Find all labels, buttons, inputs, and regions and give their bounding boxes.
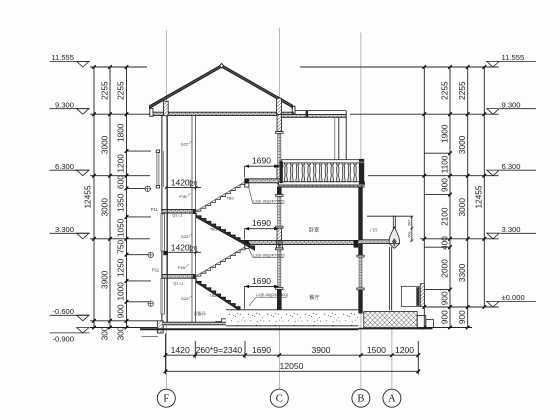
svg-text:TB1: TB1	[209, 293, 217, 298]
svg-text:20: 20	[190, 181, 198, 188]
svg-text:900: 900	[440, 178, 450, 192]
svg-text:L2(E-3b)(240*300): L2(E-3b)(240*300)	[253, 253, 285, 257]
svg-text:±0.000: ±0.000	[502, 293, 525, 302]
svg-text:750: 750	[116, 239, 126, 253]
svg-text:11.555: 11.555	[502, 53, 525, 62]
svg-text:3000: 3000	[457, 135, 467, 154]
svg-text:卧室: 卧室	[309, 226, 319, 234]
svg-text:Q1 L1: Q1 L1	[172, 214, 182, 218]
svg-text:663: 663	[407, 232, 411, 238]
svg-text:G22: G22	[181, 141, 189, 146]
svg-text:G22: G22	[181, 296, 189, 301]
svg-text:1350: 1350	[116, 193, 126, 212]
svg-text:2255: 2255	[457, 81, 467, 100]
svg-text:L2(E-3b)(240*300): L2(E-3b)(240*300)	[253, 199, 285, 203]
svg-text:1200: 1200	[116, 154, 126, 173]
svg-text:300: 300	[99, 326, 109, 340]
svg-text:900: 900	[457, 310, 467, 324]
svg-text:6.300: 6.300	[502, 162, 521, 171]
svg-text:-0.600: -0.600	[52, 307, 74, 316]
svg-text:餐厅: 餐厅	[309, 293, 319, 301]
svg-text:6.300: 6.300	[55, 162, 74, 171]
svg-text:2255: 2255	[440, 81, 450, 100]
svg-text:3000: 3000	[99, 198, 109, 217]
svg-text:900: 900	[440, 310, 450, 324]
svg-text:F: F	[163, 394, 169, 405]
svg-text:20: 20	[190, 246, 198, 253]
svg-text:3900: 3900	[99, 270, 109, 289]
svg-text:1690: 1690	[252, 156, 271, 166]
svg-text:门厅: 门厅	[370, 228, 378, 233]
svg-text:12455: 12455	[473, 185, 483, 208]
svg-text:9.300: 9.300	[55, 100, 74, 109]
svg-text:1690: 1690	[252, 276, 271, 286]
svg-text:400: 400	[440, 236, 450, 250]
svg-text:-0.900: -0.900	[52, 335, 74, 344]
svg-text:9.300: 9.300	[502, 100, 521, 109]
svg-text:1420: 1420	[171, 243, 190, 253]
svg-text:260*9=2340: 260*9=2340	[196, 345, 243, 355]
svg-text:G22: G22	[181, 234, 189, 239]
svg-text:2255: 2255	[116, 81, 126, 100]
svg-text:2000: 2000	[440, 259, 450, 278]
svg-text:L2(E-3b)(240*300): L2(E-3b)(240*300)	[256, 293, 288, 297]
svg-text:300: 300	[116, 326, 126, 340]
svg-text:600: 600	[116, 175, 126, 189]
svg-text:3900: 3900	[311, 345, 330, 355]
svg-text:1050: 1050	[116, 218, 126, 237]
svg-text:P11: P11	[151, 207, 159, 212]
svg-text:1000: 1000	[116, 282, 126, 301]
svg-text:12455: 12455	[83, 185, 93, 208]
svg-text:1420: 1420	[171, 345, 190, 355]
svg-text:设备间: 设备间	[194, 310, 206, 316]
svg-text:1800: 1800	[116, 123, 126, 142]
svg-text:12050: 12050	[280, 361, 304, 371]
svg-text:3000: 3000	[457, 198, 467, 217]
svg-text:1690: 1690	[252, 218, 271, 228]
svg-text:3.300: 3.300	[502, 225, 521, 234]
svg-text:900: 900	[440, 291, 450, 305]
svg-text:Q1 L1: Q1 L1	[173, 282, 183, 286]
svg-text:900: 900	[116, 304, 126, 318]
svg-text:587: 587	[407, 220, 411, 226]
svg-text:1250: 1250	[116, 258, 126, 277]
svg-text:TB1: TB1	[210, 227, 218, 232]
svg-text:A: A	[388, 394, 396, 405]
svg-text:1690: 1690	[252, 345, 271, 355]
svg-text:1420: 1420	[171, 178, 190, 188]
svg-text:3.300: 3.300	[55, 225, 74, 234]
svg-text:TB2: TB2	[226, 196, 234, 201]
svg-text:1100: 1100	[440, 155, 450, 173]
svg-text:11.555: 11.555	[51, 53, 74, 62]
svg-text:2255: 2255	[99, 81, 109, 100]
svg-text:B: B	[357, 394, 364, 405]
svg-text:C: C	[276, 394, 283, 405]
svg-text:P11: P11	[152, 268, 160, 273]
svg-text:3000: 3000	[99, 135, 109, 154]
svg-text:1200: 1200	[395, 345, 414, 355]
svg-text:1500: 1500	[367, 345, 386, 355]
svg-text:2100: 2100	[440, 207, 450, 226]
svg-text:P1B: P1B	[178, 266, 186, 270]
svg-text:3300: 3300	[457, 263, 467, 282]
svg-text:1900: 1900	[440, 124, 450, 143]
svg-text:P1B: P1B	[179, 195, 187, 199]
